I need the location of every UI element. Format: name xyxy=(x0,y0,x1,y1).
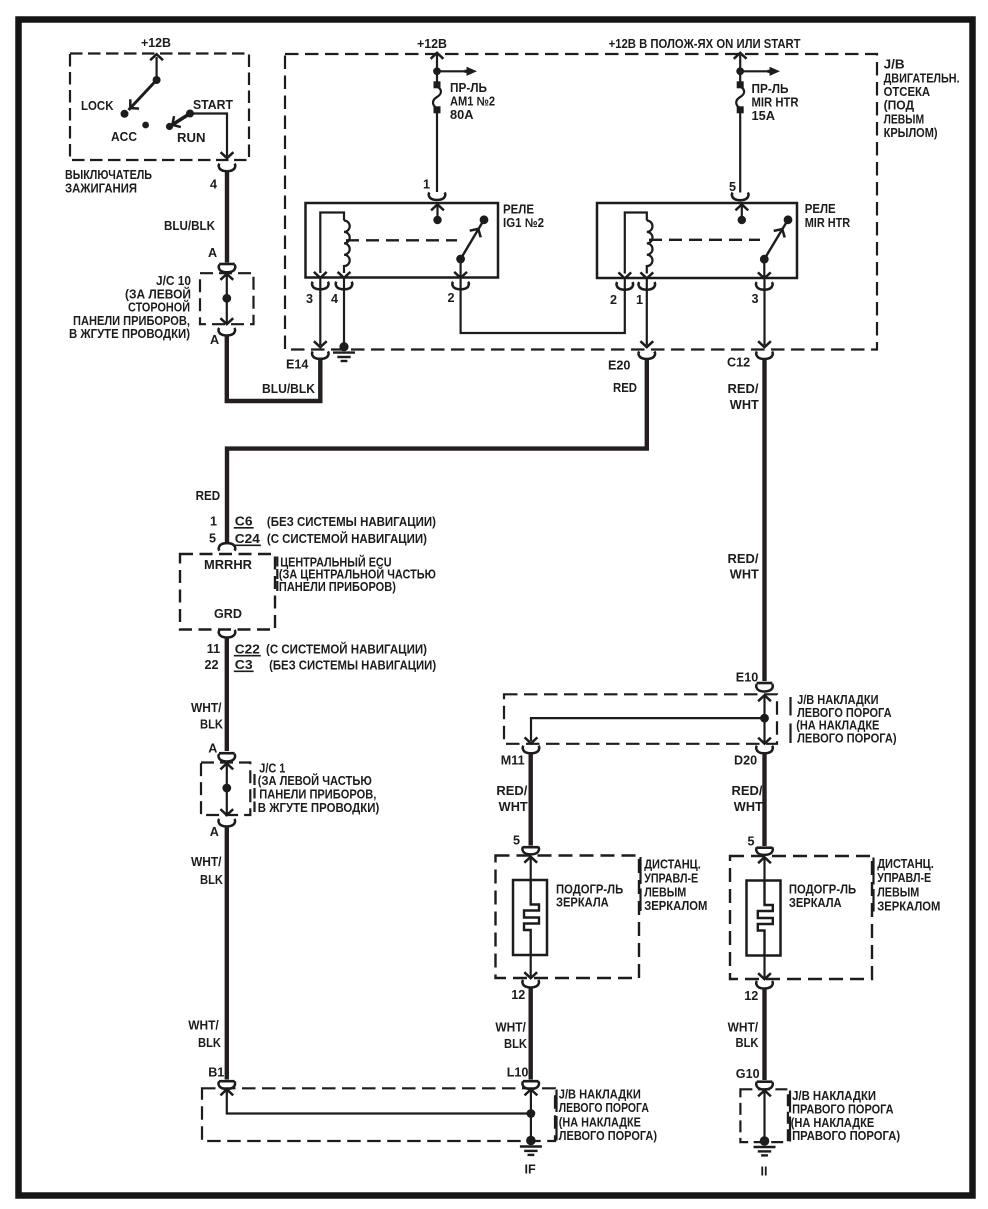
connector relay MIR pin 5 xyxy=(732,193,749,201)
wire WHT/BLK thick ECU to J/C1 xyxy=(225,637,229,751)
connector M11 xyxy=(523,746,540,754)
wire label RED/WHT (D20) xyxy=(732,784,764,814)
svg-text:MRRHR: MRRHR xyxy=(204,558,252,572)
wire RED thick E20 to ECU xyxy=(227,360,647,543)
svg-text:ВЫКЛЮЧАТЕЛЬ: ВЫКЛЮЧАТЕЛЬ xyxy=(65,168,152,182)
connector relay IG1 pin 2 xyxy=(452,282,469,290)
mid J/B internal wire E10-D20 xyxy=(763,695,765,743)
svg-text:RUN: RUN xyxy=(177,131,206,145)
svg-text:BLK: BLK xyxy=(736,1036,759,1050)
svg-text:5: 5 xyxy=(513,834,520,848)
J/B left sill box (bottom, dashed) xyxy=(202,1088,555,1141)
fuse MIR labels xyxy=(752,82,799,123)
ignition lever RUN-START xyxy=(170,114,191,127)
svg-text:WHT/: WHT/ xyxy=(191,855,222,869)
relay IG1 pin1 entry arrow + node xyxy=(431,204,444,210)
connector left heater pin 12 xyxy=(522,980,539,988)
wire branch to M11 xyxy=(531,718,765,741)
svg-text:(С СИСТЕМОЙ НАВИГАЦИИ): (С СИСТЕМОЙ НАВИГАЦИИ) xyxy=(267,531,427,546)
svg-text:MIR HTR: MIR HTR xyxy=(805,216,851,230)
relay IG1 pin arrows down xyxy=(314,272,327,278)
svg-text:3: 3 xyxy=(752,292,759,306)
svg-text:ЛЕВОГО ПОРОГА): ЛЕВОГО ПОРОГА) xyxy=(797,732,897,746)
connector name C6 xyxy=(234,515,254,529)
svg-text:BLK: BLK xyxy=(504,1037,527,1051)
svg-text:(ЗА ЛЕВОЙ ЧАСТЬЮ: (ЗА ЛЕВОЙ ЧАСТЬЮ xyxy=(258,773,372,788)
svg-text:В ЖГУТЕ ПРОВОДКИ): В ЖГУТЕ ПРОВОДКИ) xyxy=(69,327,190,341)
connector relay IG1 pin 3 xyxy=(312,282,329,290)
svg-text:УПРАВЛ-Е: УПРАВЛ-Е xyxy=(877,871,931,885)
node START contact xyxy=(186,110,194,118)
svg-text:В ЖГУТЕ ПРОВОДКИ): В ЖГУТЕ ПРОВОДКИ) xyxy=(258,801,380,815)
svg-text:BLK: BLK xyxy=(200,718,223,732)
right heater exit wire xyxy=(763,956,765,978)
svg-text:1: 1 xyxy=(210,515,217,529)
svg-text:(ЗА ЛЕВОЙ: (ЗА ЛЕВОЙ xyxy=(125,286,191,301)
left heater note text xyxy=(644,858,707,913)
svg-text:22: 22 xyxy=(205,658,219,672)
wire relay MIR pin1 to E20 xyxy=(646,280,648,346)
svg-text:RED: RED xyxy=(613,381,637,395)
svg-text:ЛЕВЫМ: ЛЕВЫМ xyxy=(884,112,925,126)
svg-text:2: 2 xyxy=(610,293,617,307)
connector relay MIR pin 2 xyxy=(616,282,633,290)
J/B label text xyxy=(884,58,960,141)
relay MIR coil xyxy=(625,213,653,274)
svg-text:WHT: WHT xyxy=(730,398,759,412)
mid J/B note text xyxy=(796,693,896,746)
right heater note text xyxy=(877,857,940,913)
svg-text:E10: E10 xyxy=(736,670,758,684)
wire label WHT/BLK (G10) xyxy=(728,1021,759,1051)
svg-text:WHT: WHT xyxy=(734,800,763,814)
svg-text:WHT/: WHT/ xyxy=(728,1021,759,1035)
svg-text:C6: C6 xyxy=(235,515,253,529)
node ignition common xyxy=(153,76,161,84)
relay MIR pin5 entry arrow + node xyxy=(735,204,748,210)
wire label RED/WHT (M11) xyxy=(496,784,528,814)
ECU note leader xyxy=(276,557,278,592)
wire G10 down to ground xyxy=(763,1091,765,1142)
svg-text:5: 5 xyxy=(748,835,755,849)
wire BLU/BLK thick from ignition xyxy=(225,171,229,263)
arrow up +12V left xyxy=(431,53,444,59)
connector name C22 xyxy=(234,642,261,656)
wire ignition +12V feed xyxy=(156,57,158,80)
svg-text:BLK: BLK xyxy=(200,873,223,887)
svg-text:12: 12 xyxy=(744,989,758,1003)
connector D20 xyxy=(756,746,773,754)
svg-text:ДВИГАТЕЛЬН.: ДВИГАТЕЛЬН. xyxy=(884,71,960,85)
svg-text:WHT/: WHT/ xyxy=(188,1019,219,1033)
bottom-left J/B note text xyxy=(559,1088,657,1143)
svg-text:GRD: GRD xyxy=(214,607,242,621)
G10 entry arrow xyxy=(758,1090,771,1096)
svg-text:E14: E14 xyxy=(286,358,308,372)
connector name C24 xyxy=(234,532,261,546)
wire relay MIR pin3 to C12 xyxy=(763,280,765,346)
svg-text:(БЕЗ СИСТЕМЫ НАВИГАЦИИ): (БЕЗ СИСТЕМЫ НАВИГАЦИИ) xyxy=(269,659,436,673)
svg-text:WHT: WHT xyxy=(499,800,528,814)
svg-text:D20: D20 xyxy=(734,754,757,768)
connector terminal 4 xyxy=(219,164,236,172)
svg-text:УПРАВЛ-Е: УПРАВЛ-Е xyxy=(644,872,698,886)
svg-text:ОТСЕКА: ОТСЕКА xyxy=(884,85,931,99)
connector ECU output xyxy=(219,630,236,638)
arrow up +12V right xyxy=(734,53,747,59)
svg-text:RED/: RED/ xyxy=(728,382,760,396)
svg-text:ПАНЕЛИ ПРИБОРОВ,: ПАНЕЛИ ПРИБОРОВ, xyxy=(73,314,190,328)
svg-text:WHT/: WHT/ xyxy=(495,1021,526,1035)
svg-text:RED/: RED/ xyxy=(728,552,760,566)
svg-text:ПОДОГР-ЛЬ: ПОДОГР-ЛЬ xyxy=(789,883,856,897)
svg-text:WHT: WHT xyxy=(730,568,759,582)
wire WHT/BLK thick right heater to G10 xyxy=(762,989,766,1080)
wire fuse AM1 to relay pin 1 xyxy=(436,112,438,193)
svg-text:1: 1 xyxy=(423,178,430,192)
right heater name xyxy=(789,883,856,910)
svg-text:J/B НАКЛАДКИ: J/B НАКЛАДКИ xyxy=(559,1088,641,1102)
arrow up to +12V xyxy=(150,54,163,60)
svg-text:ACC: ACC xyxy=(111,130,137,144)
svg-text:ПАНЕЛИ ПРИБОРОВ): ПАНЕЛИ ПРИБОРОВ) xyxy=(279,580,396,594)
svg-text:ПР-ЛЬ: ПР-ЛЬ xyxy=(752,82,789,96)
J/C 1 note text xyxy=(258,762,380,816)
connector relay IG1 pin 4 xyxy=(336,282,353,290)
node E10 branch xyxy=(760,714,769,723)
svg-text:BLU/BLK: BLU/BLK xyxy=(164,219,215,233)
connector A lower xyxy=(218,328,235,336)
relay MIR coil-switch dashed link xyxy=(649,239,760,241)
wire RED/WHT thick C12 to E10 xyxy=(762,360,766,682)
wire label WHT/BLK lower-left mid xyxy=(191,855,223,887)
connector relay MIR pin 3 xyxy=(756,282,773,290)
ground (J/B internal) xyxy=(339,342,348,351)
svg-text:12: 12 xyxy=(511,988,525,1002)
connector relay MIR pin 1 xyxy=(638,282,655,290)
left heater element xyxy=(524,880,539,955)
svg-text:(НА НАКЛАДКЕ: (НА НАКЛАДКЕ xyxy=(559,1116,641,1130)
svg-text:L10: L10 xyxy=(507,1066,529,1080)
connector relay IG1 pin 1 xyxy=(429,192,446,200)
left heater exit wire xyxy=(530,955,532,977)
relay MIR HTR box xyxy=(597,203,797,278)
ECU note text xyxy=(279,555,436,594)
wire label RED/WHT (C12) xyxy=(728,382,760,412)
svg-text:15А: 15А xyxy=(752,109,776,123)
J/C 10 text xyxy=(69,274,191,341)
svg-text:RED: RED xyxy=(196,489,221,503)
svg-text:J/C 10: J/C 10 xyxy=(156,274,191,288)
connector ECU input (dome) xyxy=(219,543,236,551)
svg-text:ПР-ЛЬ: ПР-ЛЬ xyxy=(450,81,487,95)
wire WHT/BLK thick left heater to L10 xyxy=(529,988,533,1080)
wire L10 down to ground xyxy=(530,1090,532,1141)
connector E20 xyxy=(638,351,655,359)
node J/C 10 xyxy=(222,294,231,303)
wire START to terminal 4 xyxy=(190,114,227,157)
connector name C3 xyxy=(234,658,254,672)
mid J/B note leader xyxy=(789,697,791,743)
right heater element xyxy=(758,881,773,956)
junction J/C 10 box xyxy=(200,273,254,324)
node fuse MIR top xyxy=(736,67,744,75)
svg-text:ПАНЕЛИ ПРИБОРОВ,: ПАНЕЛИ ПРИБОРОВ, xyxy=(259,787,376,801)
wire +12V to fuse AM1 xyxy=(436,55,438,84)
branch arrow right (left feed) xyxy=(437,70,466,72)
svg-text:WHT/: WHT/ xyxy=(191,701,222,715)
wire RED/WHT thick D20 to right heater xyxy=(762,753,766,846)
L10 entry arrow xyxy=(525,1089,538,1095)
node fuse AM1 top xyxy=(433,67,441,75)
svg-text:ЛЕВЫМ: ЛЕВЫМ xyxy=(644,885,686,899)
wire fuse MIR to relay pin 5 xyxy=(739,112,741,193)
svg-text:4: 4 xyxy=(331,292,338,306)
svg-text:A: A xyxy=(208,741,217,755)
svg-text:IF: IF xyxy=(525,1163,536,1177)
left heater entry arrow xyxy=(524,857,537,863)
svg-text:A: A xyxy=(210,825,219,839)
bottom-right J/B note leader xyxy=(789,1091,791,1142)
J/C 10 internal wire xyxy=(226,274,228,324)
svg-text:ЗАЖИГАНИЯ: ЗАЖИГАНИЯ xyxy=(65,182,137,196)
node ACC xyxy=(142,122,149,129)
svg-text:+12В: +12В xyxy=(417,37,447,51)
svg-text:РЕЛЕ: РЕЛЕ xyxy=(503,203,534,217)
node J/C 1 xyxy=(222,784,231,793)
svg-text:J/B: J/B xyxy=(884,58,905,72)
svg-text:ЗЕРКАЛА: ЗЕРКАЛА xyxy=(789,896,842,910)
svg-text:5: 5 xyxy=(729,180,736,194)
svg-text:MIR HTR: MIR HTR xyxy=(752,96,799,110)
B1 entry arrow xyxy=(220,1089,233,1095)
wire RED/WHT thick M11 to left heater xyxy=(529,753,533,846)
svg-text:2: 2 xyxy=(448,291,455,305)
relay MIR labels xyxy=(805,202,851,230)
wire relay IG1 pin3 to E14 xyxy=(319,279,321,345)
right mirror heater box (dashed) xyxy=(730,856,872,979)
fuse AM1 labels xyxy=(450,81,495,122)
svg-text:C24: C24 xyxy=(235,532,260,546)
svg-text:J/B НАКЛАДКИ: J/B НАКЛАДКИ xyxy=(797,693,878,707)
svg-text:(НА НАКЛАДКЕ: (НА НАКЛАДКЕ xyxy=(796,719,879,733)
relay IG1 coil xyxy=(320,213,349,274)
svg-text:RED/: RED/ xyxy=(732,784,764,798)
svg-text:LOCK: LOCK xyxy=(81,99,114,113)
wire label WHT/BLK above B1 xyxy=(188,1019,221,1051)
svg-text:ЛЕВОГО ПОРОГА): ЛЕВОГО ПОРОГА) xyxy=(559,1129,657,1143)
fuse MIR HTR 15A xyxy=(736,81,744,113)
svg-text:ПРАВОГО ПОРОГА): ПРАВОГО ПОРОГА) xyxy=(792,1129,900,1143)
wire relay IG1 pin2 to relay MIR pin2 xyxy=(461,279,625,333)
svg-text:C3: C3 xyxy=(235,658,253,672)
svg-text:+12В: +12В xyxy=(141,36,171,50)
wire label RED/WHT (mid) xyxy=(728,552,760,582)
svg-text:ПРАВОГО ПОРОГА: ПРАВОГО ПОРОГА xyxy=(792,1102,894,1116)
connector C12 xyxy=(756,351,773,359)
svg-text:C22: C22 xyxy=(235,642,260,656)
relay MIR pin arrows down xyxy=(618,272,631,278)
ground II xyxy=(760,1136,770,1146)
left heater note leader xyxy=(639,857,641,911)
J/B left sill box (mid, dashed) xyxy=(504,694,777,744)
svg-text:СТОРОНОЙ: СТОРОНОЙ xyxy=(128,300,190,315)
svg-text:ЛЕВЫМ: ЛЕВЫМ xyxy=(877,886,919,900)
junction J/C 1 box xyxy=(201,763,250,816)
svg-text:BLU/BLK: BLU/BLK xyxy=(262,382,315,396)
svg-text:(ПОД: (ПОД xyxy=(884,99,915,113)
node ground link xyxy=(527,1109,536,1118)
ignition switch box (dashed) xyxy=(70,54,249,161)
arrow down terminal 4 xyxy=(221,152,234,158)
svg-text:ДИСТАНЦ.: ДИСТАНЦ. xyxy=(877,857,934,871)
right heater note leader xyxy=(872,858,874,912)
J/C 1 note leader xyxy=(253,774,255,812)
wire relay IG1 pin4 to ground xyxy=(343,279,345,344)
svg-text:11: 11 xyxy=(207,642,220,656)
svg-text:E20: E20 xyxy=(608,359,630,373)
connector E14 xyxy=(312,351,329,359)
central ECU box (dashed) xyxy=(180,554,275,630)
svg-text:1: 1 xyxy=(636,293,643,307)
svg-text:(БЕЗ СИСТЕМЫ НАВИГАЦИИ): (БЕЗ СИСТЕМЫ НАВИГАЦИИ) xyxy=(267,515,436,529)
svg-text:ЗЕРКАЛОМ: ЗЕРКАЛОМ xyxy=(644,899,707,913)
bottom-left J/B note leader xyxy=(555,1090,557,1141)
svg-text:C12: C12 xyxy=(727,356,750,370)
svg-text:ЗЕРКАЛА: ЗЕРКАЛА xyxy=(556,896,609,910)
svg-text:ЛЕВОГО ПОРОГА: ЛЕВОГО ПОРОГА xyxy=(559,1101,649,1115)
wire B1 to ground link xyxy=(227,1090,531,1114)
svg-text:II: II xyxy=(761,1165,768,1179)
right heater entry arrow xyxy=(758,857,771,863)
ground IF xyxy=(526,1136,536,1146)
bottom-right J/B note text xyxy=(791,1089,900,1143)
svg-text:3: 3 xyxy=(306,292,313,306)
right heater element rect xyxy=(747,881,781,956)
branch arrow right (right feed) xyxy=(740,70,769,72)
node LOCK xyxy=(121,110,129,118)
wire BLU/BLK thick U to E14 xyxy=(227,335,320,402)
svg-text:A: A xyxy=(210,333,219,347)
svg-text:BLK: BLK xyxy=(198,1036,221,1050)
connector left heater pin 5 xyxy=(523,846,539,848)
svg-text:+12В В ПОЛОЖ-ЯХ ON ИЛИ START: +12В В ПОЛОЖ-ЯХ ON ИЛИ START xyxy=(609,37,801,51)
svg-text:RED/: RED/ xyxy=(496,784,528,798)
svg-text:START: START xyxy=(193,98,233,112)
svg-text:АМ1 №2: АМ1 №2 xyxy=(450,95,495,109)
svg-text:(С СИСТЕМОЙ НАВИГАЦИИ): (С СИСТЕМОЙ НАВИГАЦИИ) xyxy=(266,641,427,656)
svg-text:КРЫЛОМ): КРЫЛОМ) xyxy=(884,126,938,140)
J/B right sill box (bottom, dashed) xyxy=(740,1089,788,1142)
svg-text:80А: 80А xyxy=(450,108,474,122)
connector right heater pin 12 xyxy=(756,981,773,989)
relay IG1 No2 box xyxy=(306,203,499,278)
left heater name xyxy=(556,883,623,910)
wire WHT/BLK thick J/C1 to B1 xyxy=(225,826,229,1080)
svg-text:РЕЛЕ: РЕЛЕ xyxy=(805,202,836,216)
J/C 1 internal wire xyxy=(226,764,228,815)
svg-text:4: 4 xyxy=(210,178,217,192)
fuse AM1 No2 80A xyxy=(433,81,441,113)
wire +12V to fuse MIR HTR xyxy=(739,55,741,84)
svg-text:5: 5 xyxy=(209,532,216,546)
svg-text:B1: B1 xyxy=(208,1066,224,1080)
J/B engine compartment box (dashed) xyxy=(285,54,877,350)
svg-text:G10: G10 xyxy=(736,1067,760,1081)
left heater element rect xyxy=(513,880,547,955)
svg-text:M11: M11 xyxy=(501,754,525,768)
relay IG1 coil-switch dashed link xyxy=(346,239,457,241)
wire label WHT/BLK (L10) xyxy=(495,1021,527,1052)
relay MIR switch xyxy=(760,215,793,263)
wire label WHT/BLK upper xyxy=(191,701,223,732)
svg-text:ДИСТАНЦ.: ДИСТАНЦ. xyxy=(644,858,701,872)
relay IG1 labels xyxy=(503,203,544,231)
svg-text:ЗЕРКАЛОМ: ЗЕРКАЛОМ xyxy=(877,899,940,913)
left mirror heater box (dashed) xyxy=(496,856,640,979)
connector right heater pin 5 xyxy=(757,847,773,849)
ignition lever to LOCK xyxy=(129,80,157,110)
svg-text:(НА НАКЛАДКЕ: (НА НАКЛАДКЕ xyxy=(791,1116,875,1130)
connector A (J/C1 lower) xyxy=(218,819,235,827)
svg-text:IG1 №2: IG1 №2 xyxy=(503,216,544,230)
relay IG1 switch xyxy=(456,215,488,263)
svg-text:J/B НАКЛАДКИ: J/B НАКЛАДКИ xyxy=(792,1089,876,1103)
svg-text:A: A xyxy=(208,246,217,260)
